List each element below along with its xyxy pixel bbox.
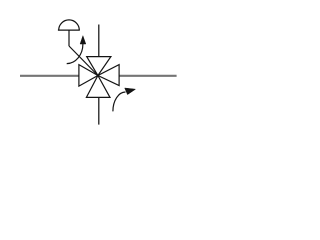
actuator base line — [58, 29, 80, 31]
wire: bottom stem — [98, 97, 100, 124]
valve V1: right port triangle — [98, 65, 119, 86]
curved arrow A2 (lower-right) shaft — [113, 92, 126, 111]
actuator stem — [68, 30, 70, 46]
curved arrow A1 (upper-left) shaft — [67, 44, 83, 64]
valve V1: bottom port triangle — [86, 76, 110, 98]
wire: top stem — [98, 25, 100, 57]
valve V1: left port triangle — [79, 65, 98, 87]
wire: actuator diagonal link — [69, 46, 98, 76]
curved arrow A2 head — [125, 88, 136, 95]
wire: left pipe line — [20, 75, 79, 77]
curved arrow A1 head — [80, 36, 86, 44]
wire: right pipe line — [119, 75, 177, 77]
actuator dome — [59, 20, 80, 30]
valve V1: top port triangle — [87, 57, 111, 76]
